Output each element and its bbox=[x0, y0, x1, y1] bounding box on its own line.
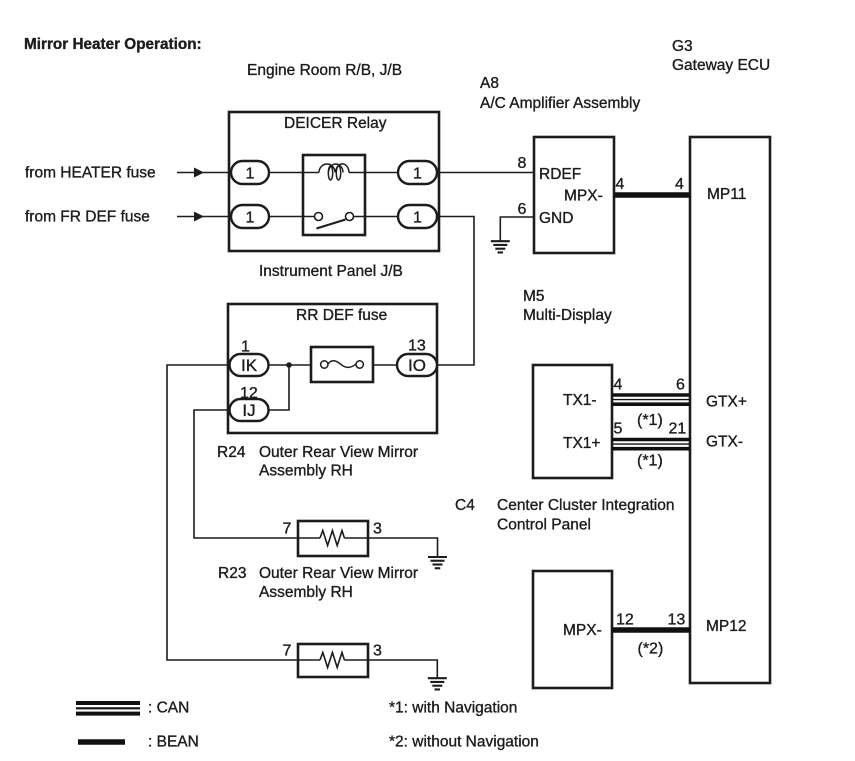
svg-text:C4: C4 bbox=[455, 497, 475, 514]
svg-text:21: 21 bbox=[669, 421, 687, 438]
svg-text:Assembly RH: Assembly RH bbox=[259, 463, 353, 480]
svg-text:Gateway ECU: Gateway ECU bbox=[672, 57, 770, 74]
svg-text:MPX-: MPX- bbox=[564, 188, 603, 205]
svg-text:6: 6 bbox=[518, 201, 527, 218]
svg-text:MP11: MP11 bbox=[707, 186, 746, 203]
svg-text:TX1+: TX1+ bbox=[563, 435, 600, 452]
svg-text:(*2): (*2) bbox=[638, 641, 664, 658]
svg-text:13: 13 bbox=[668, 612, 686, 629]
svg-text:Outer Rear View Mirror: Outer Rear View Mirror bbox=[259, 444, 418, 461]
svg-text:12: 12 bbox=[616, 612, 634, 629]
svg-text:4: 4 bbox=[614, 377, 623, 394]
svg-text:3: 3 bbox=[373, 521, 382, 538]
svg-text:GTX-: GTX- bbox=[706, 434, 743, 451]
svg-text:(*1): (*1) bbox=[637, 412, 663, 429]
svg-text:8: 8 bbox=[518, 155, 527, 172]
svg-text:4: 4 bbox=[675, 176, 684, 193]
svg-text:1: 1 bbox=[246, 166, 255, 183]
svg-text:Outer Rear View Mirror: Outer Rear View Mirror bbox=[259, 565, 418, 582]
svg-text:*1: with Navigation: *1: with Navigation bbox=[389, 700, 517, 717]
svg-text:(*1): (*1) bbox=[637, 453, 663, 470]
svg-text:1: 1 bbox=[246, 210, 255, 227]
svg-text:7: 7 bbox=[283, 521, 292, 538]
svg-text:R23: R23 bbox=[218, 565, 246, 582]
svg-text:from FR DEF fuse: from FR DEF fuse bbox=[25, 209, 150, 226]
svg-text:: BEAN: : BEAN bbox=[148, 734, 199, 751]
svg-text:G3: G3 bbox=[672, 38, 693, 55]
svg-text:GTX+: GTX+ bbox=[706, 394, 747, 411]
svg-text:A/C Amplifier Assembly: A/C Amplifier Assembly bbox=[480, 95, 640, 112]
svg-text:IK: IK bbox=[241, 356, 258, 375]
svg-text:Control Panel: Control Panel bbox=[497, 517, 591, 534]
svg-text:Mirror Heater Operation:: Mirror Heater Operation: bbox=[24, 36, 202, 53]
svg-text:Instrument Panel J/B: Instrument Panel J/B bbox=[259, 263, 403, 280]
svg-text:IO: IO bbox=[408, 356, 426, 375]
svg-text:DEICER Relay: DEICER Relay bbox=[284, 115, 387, 132]
svg-text:TX1-: TX1- bbox=[563, 392, 597, 409]
svg-text:GND: GND bbox=[539, 210, 573, 227]
svg-text:R24: R24 bbox=[217, 444, 246, 461]
svg-text:5: 5 bbox=[614, 421, 623, 438]
svg-text:13: 13 bbox=[408, 338, 426, 355]
svg-text:Engine Room R/B, J/B: Engine Room R/B, J/B bbox=[247, 62, 402, 79]
svg-text:MPX-: MPX- bbox=[563, 622, 602, 639]
svg-text:3: 3 bbox=[373, 643, 382, 660]
svg-text:7: 7 bbox=[283, 643, 292, 660]
svg-text:1: 1 bbox=[413, 210, 422, 227]
svg-text:4: 4 bbox=[616, 176, 625, 193]
svg-text:1: 1 bbox=[241, 339, 250, 356]
svg-text:RDEF: RDEF bbox=[539, 166, 581, 183]
svg-text:Multi-Display: Multi-Display bbox=[523, 307, 612, 324]
svg-text:12: 12 bbox=[240, 385, 258, 402]
svg-text:from HEATER fuse: from HEATER fuse bbox=[25, 165, 156, 182]
svg-text:MP12: MP12 bbox=[706, 618, 747, 635]
svg-text:RR DEF fuse: RR DEF fuse bbox=[296, 307, 387, 324]
svg-text:: CAN: : CAN bbox=[148, 700, 189, 717]
svg-text:6: 6 bbox=[676, 377, 685, 394]
svg-text:IJ: IJ bbox=[242, 401, 255, 420]
svg-text:Center Cluster Integration: Center Cluster Integration bbox=[497, 497, 674, 514]
svg-text:Assembly RH: Assembly RH bbox=[259, 584, 353, 601]
svg-text:1: 1 bbox=[413, 166, 422, 183]
svg-text:*2: without Navigation: *2: without Navigation bbox=[389, 734, 539, 751]
svg-text:M5: M5 bbox=[523, 288, 545, 305]
svg-text:A8: A8 bbox=[480, 75, 499, 92]
